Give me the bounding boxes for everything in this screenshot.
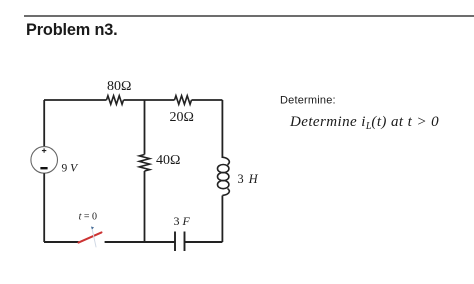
wire right branch upper (221, 100, 223, 158)
svg-text:Problem n3.: Problem n3. (26, 21, 118, 39)
svg-text:Determine iL(t) at t > 0: Determine iL(t) at t > 0 (289, 114, 439, 132)
wire left branch upper (43, 100, 45, 147)
wire top-middle segment (124, 99, 175, 101)
inductor L 3H (218, 157, 230, 195)
wire left branch lower (43, 173, 45, 242)
wire bottom-right segment (185, 241, 223, 243)
wire bottom-middle segment (105, 241, 175, 243)
svg-text:9 V: 9 V (62, 162, 80, 174)
switch blade (red, open) (79, 232, 102, 242)
svg-text:40Ω: 40Ω (156, 153, 180, 168)
svg-text:80Ω: 80Ω (107, 79, 131, 94)
svg-text:t = 0: t = 0 (79, 212, 97, 223)
plus sign (42, 148, 46, 152)
wire right branch lower (221, 196, 223, 243)
switch motion line (92, 230, 96, 248)
voltage source V1 9V circle (31, 147, 58, 174)
resistor R 40ohm (vertical) (139, 155, 149, 172)
wire middle branch upper (144, 100, 146, 155)
resistor R 80ohm (107, 96, 124, 105)
svg-text:3 F: 3 F (174, 214, 191, 228)
wire bottom-left segment (44, 241, 79, 243)
top rule (24, 15, 474, 17)
capacitor C 3F plates (175, 232, 185, 252)
wire top-right segment (192, 99, 223, 101)
resistor R 20ohm (175, 96, 192, 105)
minus sign (40, 167, 47, 169)
svg-text:Determine:: Determine: (280, 95, 336, 107)
switch arrowhead (91, 227, 94, 230)
wire top-left segment (44, 99, 107, 101)
svg-text:3 H: 3 H (238, 172, 259, 186)
svg-text:20Ω: 20Ω (170, 110, 194, 125)
wire middle branch lower (144, 171, 146, 242)
